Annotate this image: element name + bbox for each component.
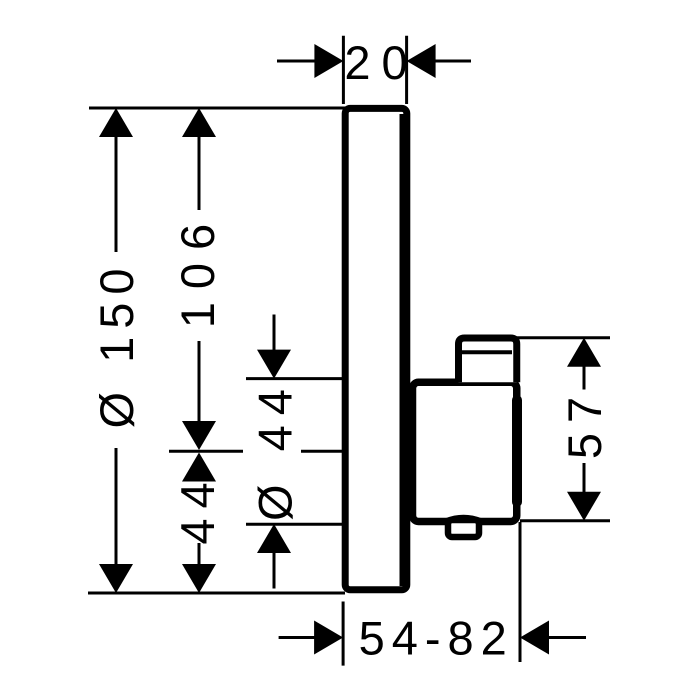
dimension Ø150 lower stem [115,448,118,564]
svg-text:57: 57 [558,387,611,459]
handle right edge bulge [512,400,522,502]
dimension 106 lower stem [198,341,201,421]
faceplate right edge thickening line [400,114,410,586]
svg-text:106: 106 [171,211,224,328]
dimension Ø44 lower stem [273,553,276,589]
extension line plate top [89,107,345,110]
handle main body (knob, side view) [413,382,517,521]
dimension 20 right stem [435,60,471,63]
dimension 54-82 right arrowhead [520,621,549,655]
dimension 44 lower stem [198,543,201,564]
svg-text:44: 44 [171,472,224,544]
dimension 57 bottom arrowhead [567,492,601,521]
dimension 44 top arrowhead [182,453,216,482]
dimension 54-82 right stem [549,636,586,639]
handle upper step [459,338,517,382]
dimension 54-82 left arrowhead [314,621,343,655]
dimension 57 top arrowhead [567,338,601,367]
dimension Ø150 top arrowhead [99,108,133,137]
bottom clip tab [448,520,479,537]
extension line plate depth right [405,36,408,104]
dimension 57 upper stem [583,366,586,390]
extension line handle axis left part [169,450,243,453]
dimension 106 bottom arrowhead [182,421,216,450]
dimension Ø44 upper stem [273,315,276,351]
extension line recess depth left [342,602,345,666]
dimension 44 bottom arrowhead [182,564,216,593]
svg-text:Ø 44: Ø 44 [249,379,302,521]
dimension Ø150 upper stem [115,137,118,252]
dimension 20 left stem [277,60,315,63]
dimension Ø150 bottom arrowhead [99,564,133,593]
dimension 57 lower stem [583,463,586,492]
clip bump on handle bottom [446,518,481,522]
extension line handle axis right part [301,450,343,453]
dimension 20 right arrowhead [407,44,436,78]
extension line handle top [246,377,343,380]
dimension 54-82 left stem [279,636,315,639]
extension line handle step top right [516,336,610,339]
extension line handle bottom right [520,519,610,522]
faceplate (escutcheon plate, side view) [345,108,407,589]
svg-text:54-82: 54-82 [359,612,514,665]
extension line recess depth right [519,522,522,662]
dimension 20 left arrowhead [314,44,343,78]
upper step cap seam [462,350,512,354]
extension line plate bottom [88,592,345,595]
extension line plate depth left [342,36,345,104]
dimension 106 upper stem [198,137,201,210]
dimension Ø44 top arrowhead [257,350,291,379]
dimension Ø44 bottom arrowhead [257,524,291,553]
svg-text:Ø 150: Ø 150 [90,260,143,428]
extension line handle bottom [246,523,343,526]
svg-text:20: 20 [344,36,418,89]
dimension 106 top arrowhead [182,108,216,137]
